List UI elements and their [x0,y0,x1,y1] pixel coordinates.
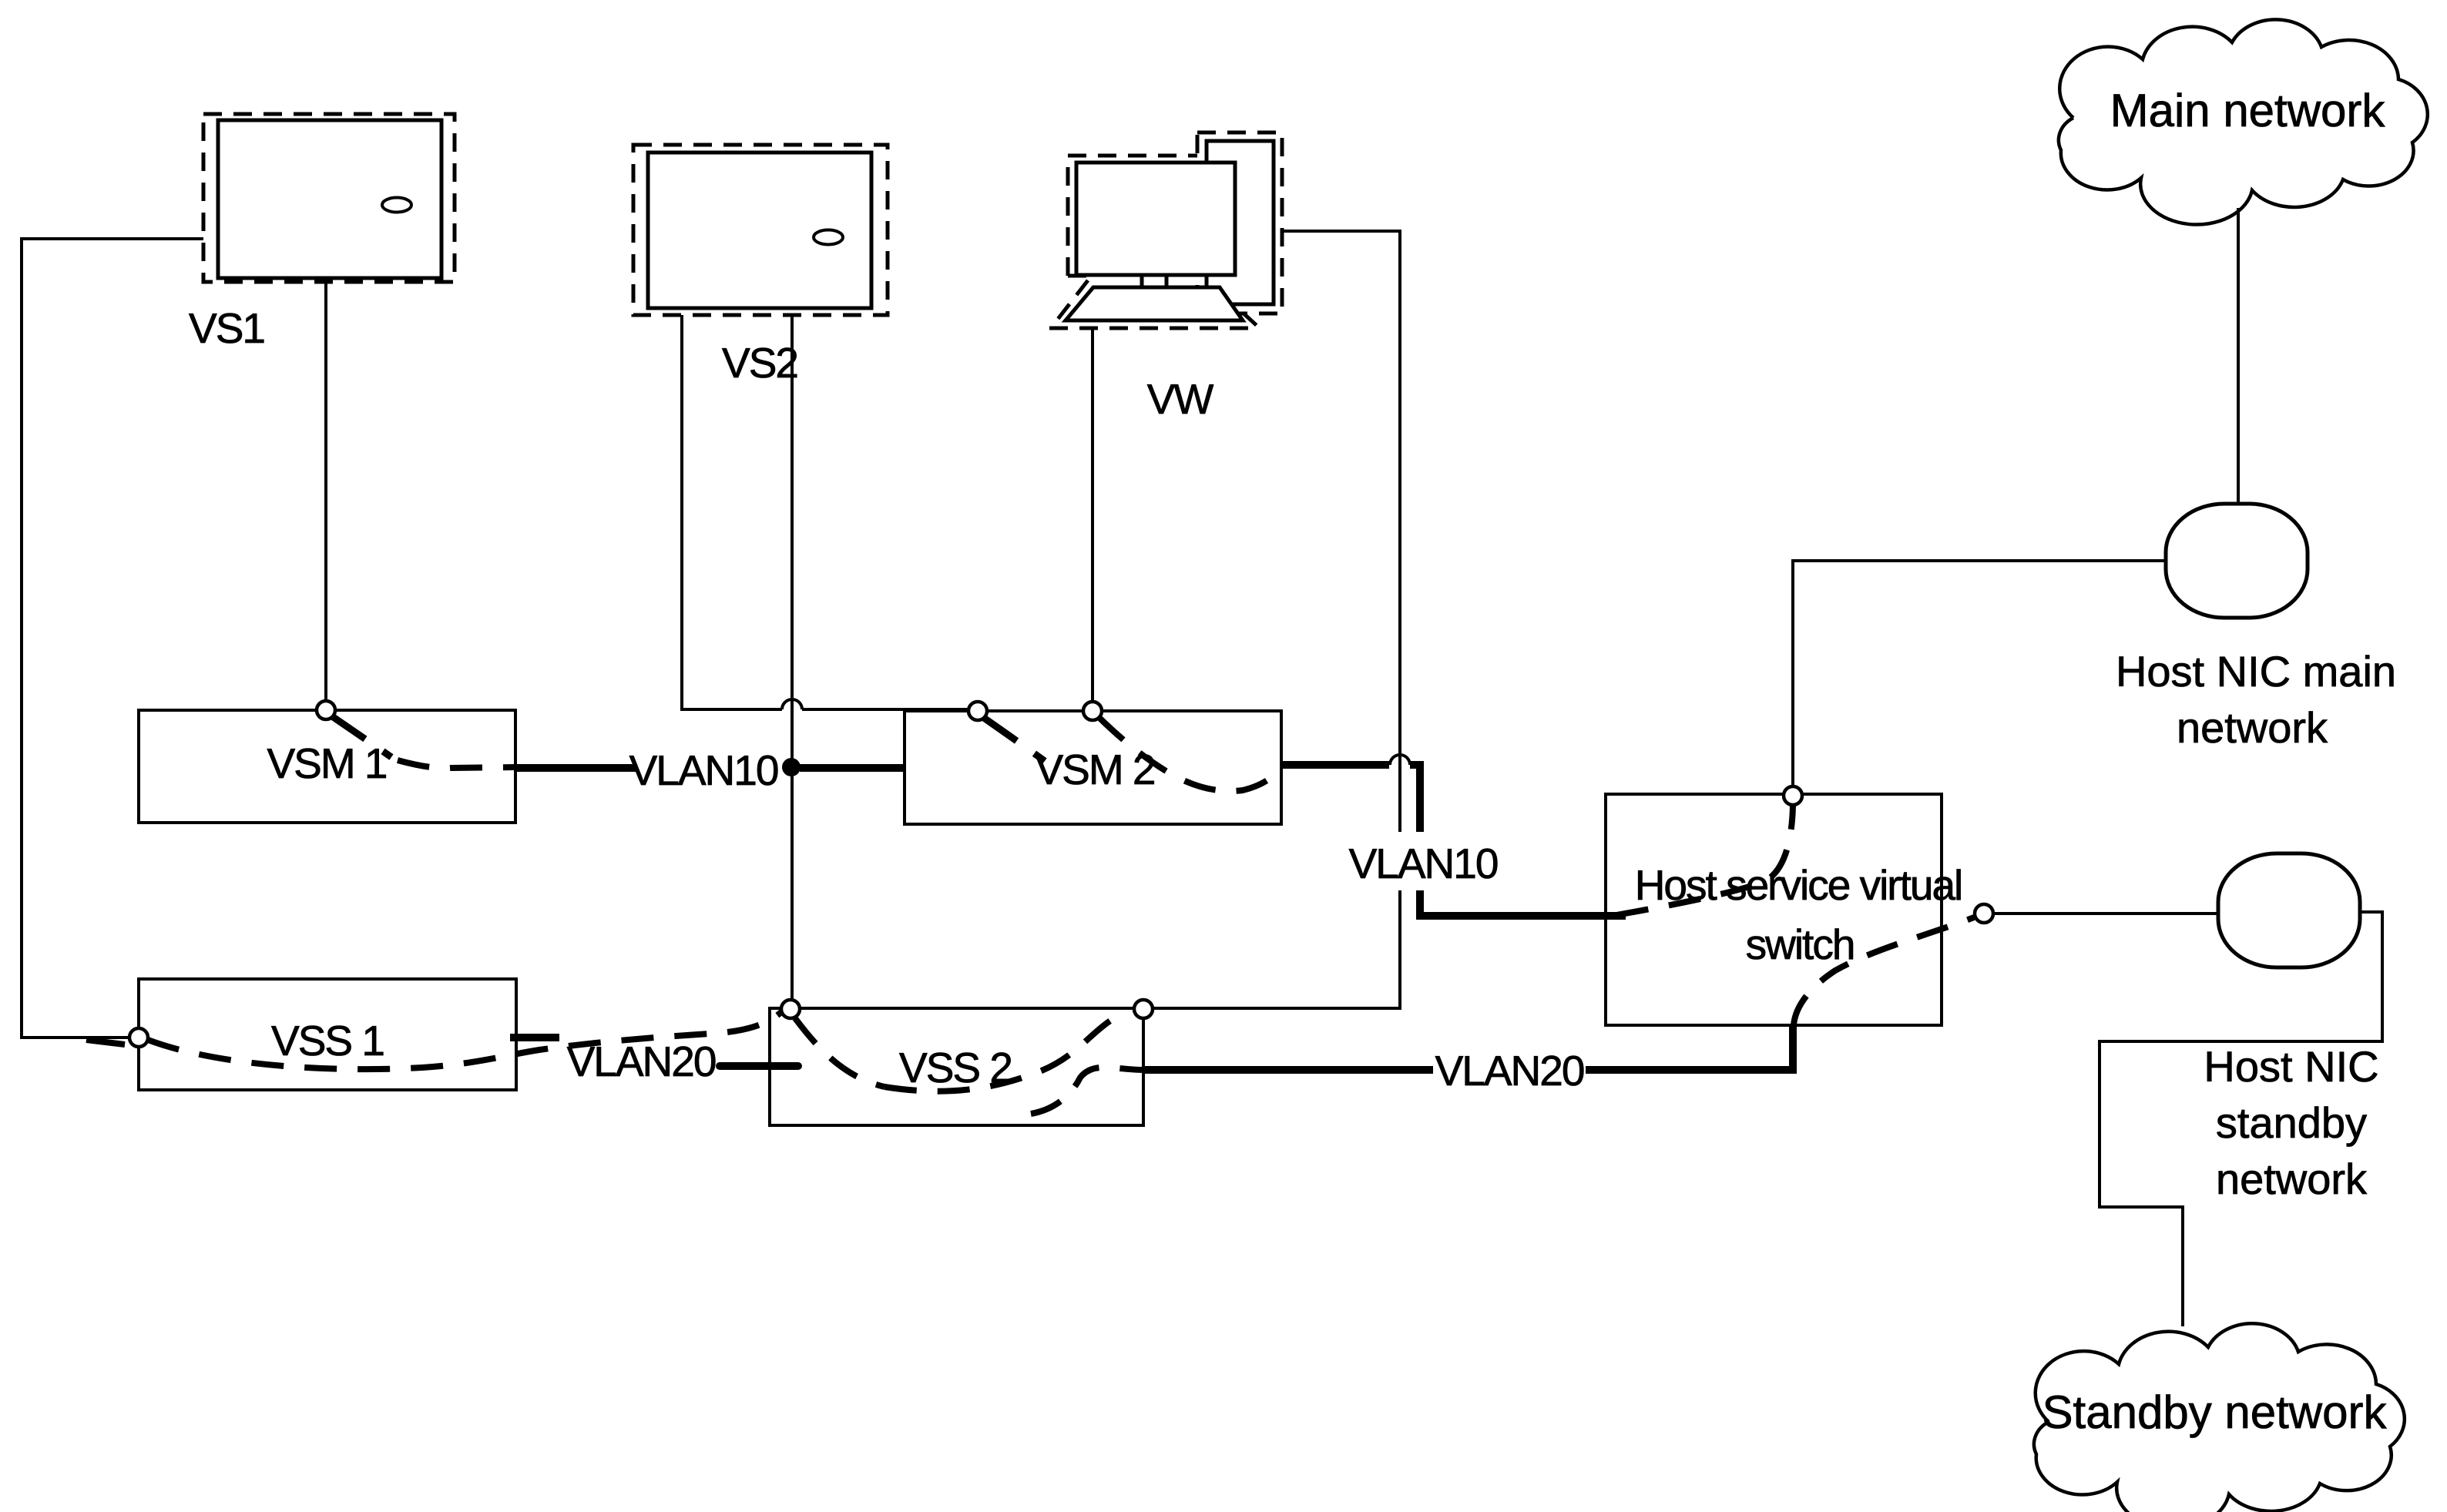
node Host switch right port [1975,904,1993,923]
cable stub left of VSS1 port [86,1040,125,1044]
node VSM1 top port [317,701,335,719]
svg-text:VW: VW [1147,375,1214,423]
svg-text:VLAN10: VLAN10 [1349,840,1498,887]
svg-text:Standby network: Standby network [2043,1386,2388,1438]
hop arc over vertical line [782,699,802,709]
svg-text:network: network [2216,1155,2368,1203]
cable inside VSM2 from port 2 to VLAN10 [1099,718,1281,791]
svg-text:network: network [2177,703,2328,752]
switch box VSM 1 [139,710,515,823]
cable inside Host switch from bottom VLAN20 to right port [1794,917,1974,1025]
link VLAN20 VSS2 to Host switch (thick) [1143,1066,1433,1074]
svg-text:VS2: VS2 [722,339,797,387]
node VSS1 left port [129,1028,148,1047]
node VSS2 top-right port [1134,1000,1153,1018]
wire VW bottom to VSM2 second port [1091,330,1094,702]
cable inside VSS2 to VLAN20 [1031,1068,1142,1114]
wire Main network cloud to Host NIC main [2237,208,2240,504]
workstation VW keyboard [1066,287,1243,320]
svg-text:VSM 2: VSM 2 [1035,746,1154,793]
svg-text:VS1: VS1 [189,304,264,352]
svg-text:switch: switch [1746,920,1855,968]
cable inside VSS2 under label to top-right port [884,1014,1123,1091]
junction node dot [782,758,801,776]
cable inside Host switch from VLAN10 to top port [1616,806,1793,915]
workstation VW rear unit dashed outline [1197,132,1282,313]
server VS2 indicator ellipse [814,230,843,245]
wire VS2 right-bottom down to VSS2 port [790,315,794,999]
svg-text:VSM 1: VSM 1 [267,739,386,787]
workstation VW monitor screen [1076,163,1235,275]
server VS1 dashed outline [203,114,455,282]
wire VW right side down to VSS2 top-right port [1153,231,1400,1008]
server VS1 indicator ellipse [382,198,411,213]
wire Host NIC standby to Standby network cloud [2100,912,2382,1326]
link VLAN20 VSS1 to VSS2 (thick) [510,1034,559,1041]
svg-text:VSS 1: VSS 1 [271,1017,384,1064]
svg-text:Main network: Main network [2110,85,2386,136]
cloud Standby network [2034,1323,2405,1512]
cable inside VSM1 [332,716,391,757]
workstation VW front dashed outline [1068,156,1197,276]
workstation VW monitor stand [1142,275,1207,287]
cable inside VSS2 from top-left port [795,1018,884,1087]
jump arc (thin) over VW wire [1390,755,1410,765]
svg-text:VLAN20: VLAN20 [1435,1047,1584,1095]
workstation VW keyboard dashed outline [1049,280,1261,330]
wire VS1 bottom to VSM1 port [324,282,327,701]
svg-text:VLAN10: VLAN10 [629,746,778,794]
link VLAN10 VSM1 to VSM2 (thick) [515,764,636,772]
server VS2 body [648,153,871,308]
svg-text:standby: standby [2216,1098,2367,1147]
node VSM2 port 1 [968,702,987,720]
switch box VSS 2 [770,1008,1143,1125]
cable inside VSS1 to VSS2 [148,1011,783,1069]
workstation VW rear unit body [1207,141,1274,304]
switch box VSM 2 [905,711,1281,824]
node Host NIC standby network [2218,853,2360,967]
svg-text:Host NIC main: Host NIC main [2116,647,2396,696]
cloud Main network [2059,19,2428,224]
wire Host switch right port to Host NIC standby [1993,912,2218,915]
cable inside VSM2 from port 1 [984,718,1045,761]
server VS2 dashed outline [633,145,888,315]
switch box VSS 1 [139,979,516,1090]
wire Host NIC main to Host service virtual switch top port [1793,561,2166,787]
server VS1 body [218,120,441,278]
link VLAN10 VSM2 to Host switch (thick, with jump) [1281,761,1389,769]
switch box Host service virtual switch [1606,794,1942,1025]
wire VS2 left-bottom to VSM2 port (with hop) [682,315,968,709]
node VSM2 port 2 [1083,702,1102,720]
node Host NIC main network [2166,504,2308,618]
node Host switch top port [1784,786,1802,805]
wire VS1 left to VSS1 port [22,239,203,1038]
node VSS2 top-left port [781,1000,800,1018]
svg-text:Host NIC: Host NIC [2204,1042,2378,1091]
